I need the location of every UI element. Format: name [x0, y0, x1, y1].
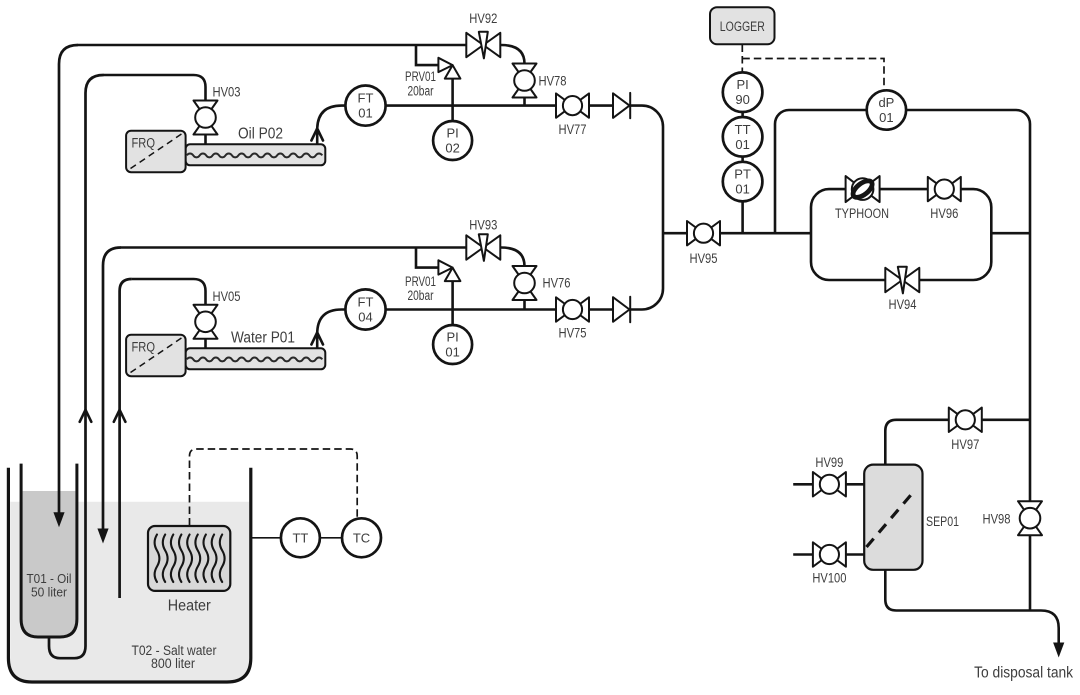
svg-text:HV93: HV93: [469, 218, 497, 233]
svg-text:HV78: HV78: [539, 74, 567, 89]
wire PRV01 stem to water main: [451, 281, 454, 309]
wire HV03 to pump inlet: [204, 135, 207, 145]
tank T01 walls: [21, 464, 77, 637]
wire HV76 stem to water main: [523, 300, 526, 310]
valve HV78: [513, 64, 537, 98]
svg-text:HV95: HV95: [690, 251, 718, 266]
svg-text:FT: FT: [358, 91, 374, 106]
svg-text:FRQ: FRQ: [132, 339, 156, 354]
wire oil return drop into T01: [59, 45, 78, 513]
svg-text:02: 02: [445, 141, 459, 156]
wire loop outlet to right vertical: [991, 232, 1030, 235]
wire pump P01 outlet to FT04: [317, 310, 345, 349]
instrument FT01: [345, 86, 385, 126]
svg-text:PRV01: PRV01: [405, 69, 436, 84]
svg-text:Oil P02: Oil P02: [238, 126, 283, 143]
svg-text:50 liter: 50 liter: [31, 585, 68, 600]
instrument PI90: [723, 72, 763, 112]
relief valve PRV01 water: [438, 260, 460, 281]
svg-text:HV98: HV98: [983, 511, 1011, 526]
svg-text:HV76: HV76: [543, 275, 571, 290]
svg-text:HV75: HV75: [559, 326, 587, 341]
svg-text:HV05: HV05: [213, 289, 241, 304]
wire SEP01 bottom to disposal line: [885, 570, 1058, 645]
valve HV03: [194, 101, 218, 135]
svg-text:01: 01: [445, 345, 459, 360]
svg-text:01: 01: [879, 110, 893, 125]
wire water return drop into T02: [103, 248, 121, 530]
dashed logger to PI90: [741, 45, 743, 73]
valve HV76: [513, 266, 537, 300]
valve HV93: [466, 234, 500, 261]
svg-text:Water P01: Water P01: [231, 330, 295, 347]
svg-text:To disposal tank: To disposal tank: [974, 665, 1073, 682]
wire loop rounded rectangle: [811, 189, 991, 280]
valve HV92: [466, 32, 500, 59]
wire water return top line: [121, 248, 525, 267]
wire oil suction horizontal to HV03: [103, 75, 206, 101]
pump Oil P02 body: [186, 144, 326, 165]
FRQ diagonal dashed water: [131, 338, 182, 373]
wire HV78 stem to oil main: [523, 98, 526, 106]
instrument TC: [342, 518, 381, 557]
svg-text:dP: dP: [878, 95, 894, 110]
svg-text:800 liter: 800 liter: [151, 656, 195, 671]
instrument PT01: [723, 162, 763, 202]
svg-text:FT: FT: [358, 295, 374, 310]
svg-text:PI: PI: [736, 77, 748, 92]
pump Oil P02 wavy line: [187, 153, 322, 157]
wire stack stem PT01 to main: [741, 201, 744, 233]
svg-text:PRV01: PRV01: [405, 274, 436, 289]
svg-text:01: 01: [735, 182, 749, 197]
svg-text:HV92: HV92: [469, 11, 497, 26]
dashed logger branch to dP01: [742, 59, 884, 91]
svg-text:HV97: HV97: [951, 437, 979, 452]
SEP01 dashed diagonal: [867, 493, 914, 548]
wire HV100 line: [793, 553, 864, 556]
relief valve PRV01 oil: [438, 58, 460, 79]
svg-text:HV96: HV96: [930, 206, 958, 221]
wire oil return top line: [78, 45, 525, 64]
tank T02 salt water fill: [10, 502, 249, 680]
wire riser to PRV01 oil: [416, 45, 438, 65]
wire junction line to loop: [663, 232, 811, 235]
arrow into T01: [53, 512, 64, 527]
instrument PI02: [433, 121, 472, 160]
svg-text:HV94: HV94: [889, 297, 917, 312]
svg-text:HV100: HV100: [812, 571, 846, 586]
wire HV97 branch line: [885, 420, 1030, 465]
svg-text:01: 01: [735, 137, 749, 152]
svg-text:HV99: HV99: [815, 455, 843, 470]
tank T01 oil fill: [23, 491, 76, 636]
svg-text:01: 01: [358, 106, 372, 121]
svg-text:TT: TT: [292, 531, 308, 546]
svg-text:TYPHOON: TYPHOON: [835, 206, 889, 221]
valve HV99: [813, 472, 846, 496]
FRQ diagonal dashed oil: [131, 134, 182, 169]
wire stem TT01-PI90: [741, 112, 744, 117]
svg-text:20bar: 20bar: [408, 83, 434, 98]
svg-text:LOGGER: LOGGER: [720, 19, 765, 34]
instrument TT: [281, 518, 320, 557]
wire HV99 line: [793, 483, 864, 486]
drive FRQ box oil: [126, 131, 186, 173]
valve HV100: [813, 542, 846, 566]
arrow up water suction: [114, 410, 126, 422]
svg-text:FRQ: FRQ: [132, 135, 156, 150]
svg-text:Heater: Heater: [168, 598, 211, 615]
wire oil main line and right C-bend to water main: [386, 106, 664, 310]
dashed control line heater to TC: [190, 449, 358, 526]
wire water suction riser: [120, 279, 132, 598]
svg-text:TT: TT: [735, 122, 751, 137]
check valve oil: [613, 93, 630, 118]
check valve water: [613, 297, 630, 322]
svg-text:04: 04: [358, 310, 372, 325]
arrow up oil suction: [80, 410, 92, 422]
logger box: [710, 7, 775, 44]
wire PI01 stem: [451, 310, 454, 326]
drive FRQ box water: [126, 335, 186, 377]
svg-text:PT: PT: [734, 167, 751, 182]
wire water suction horizontal to HV05: [132, 279, 206, 305]
separator SEP01 box: [864, 465, 922, 570]
instrument TT01: [723, 117, 763, 157]
valve HV05: [194, 305, 218, 339]
valve HV77: [556, 93, 589, 117]
wire pump P02 outlet to FT01: [317, 106, 345, 145]
valve HV94: [885, 267, 919, 294]
tank T02 walls: [8, 468, 250, 682]
wire TT to TC: [320, 537, 342, 539]
wire dP impulse line: [775, 110, 1030, 611]
wire oil suction U-bend and riser: [49, 75, 104, 658]
heater coil squiggles: [155, 535, 225, 583]
wire PRV01 stem to oil main: [451, 79, 454, 106]
wire PI02 stem: [451, 106, 454, 122]
wire stem PT01-TT01: [741, 157, 744, 162]
arrow up pump P01 outlet: [311, 333, 323, 345]
svg-text:20bar: 20bar: [408, 288, 434, 303]
valve TYPHOON: [846, 176, 880, 202]
valve HV95: [687, 221, 720, 245]
instrument FT04: [345, 289, 385, 329]
valve HV98: [1018, 501, 1042, 535]
instrument dP01: [867, 90, 906, 129]
svg-text:HV77: HV77: [559, 122, 587, 137]
svg-text:PI: PI: [446, 126, 458, 141]
arrow to disposal tank: [1053, 643, 1064, 658]
valve HV97: [949, 408, 982, 432]
valve HV75: [556, 297, 589, 321]
pump Water P01 body: [186, 348, 326, 369]
svg-text:SEP01: SEP01: [926, 514, 959, 529]
arrow into T02: [97, 529, 108, 544]
wire riser to PRV01 water: [416, 248, 438, 268]
heater box: [148, 526, 230, 591]
wire tank wall to TT: [251, 537, 281, 539]
svg-text:90: 90: [735, 92, 749, 107]
arrow up pump P02 outlet: [311, 129, 323, 141]
wire HV05 to pump inlet: [204, 339, 207, 349]
valve HV96: [928, 177, 961, 201]
svg-text:PI: PI: [446, 330, 458, 345]
svg-text:TC: TC: [353, 531, 370, 546]
instrument PI01: [433, 325, 472, 364]
pump Water P01 wavy line: [187, 357, 322, 361]
svg-text:HV03: HV03: [213, 84, 241, 99]
